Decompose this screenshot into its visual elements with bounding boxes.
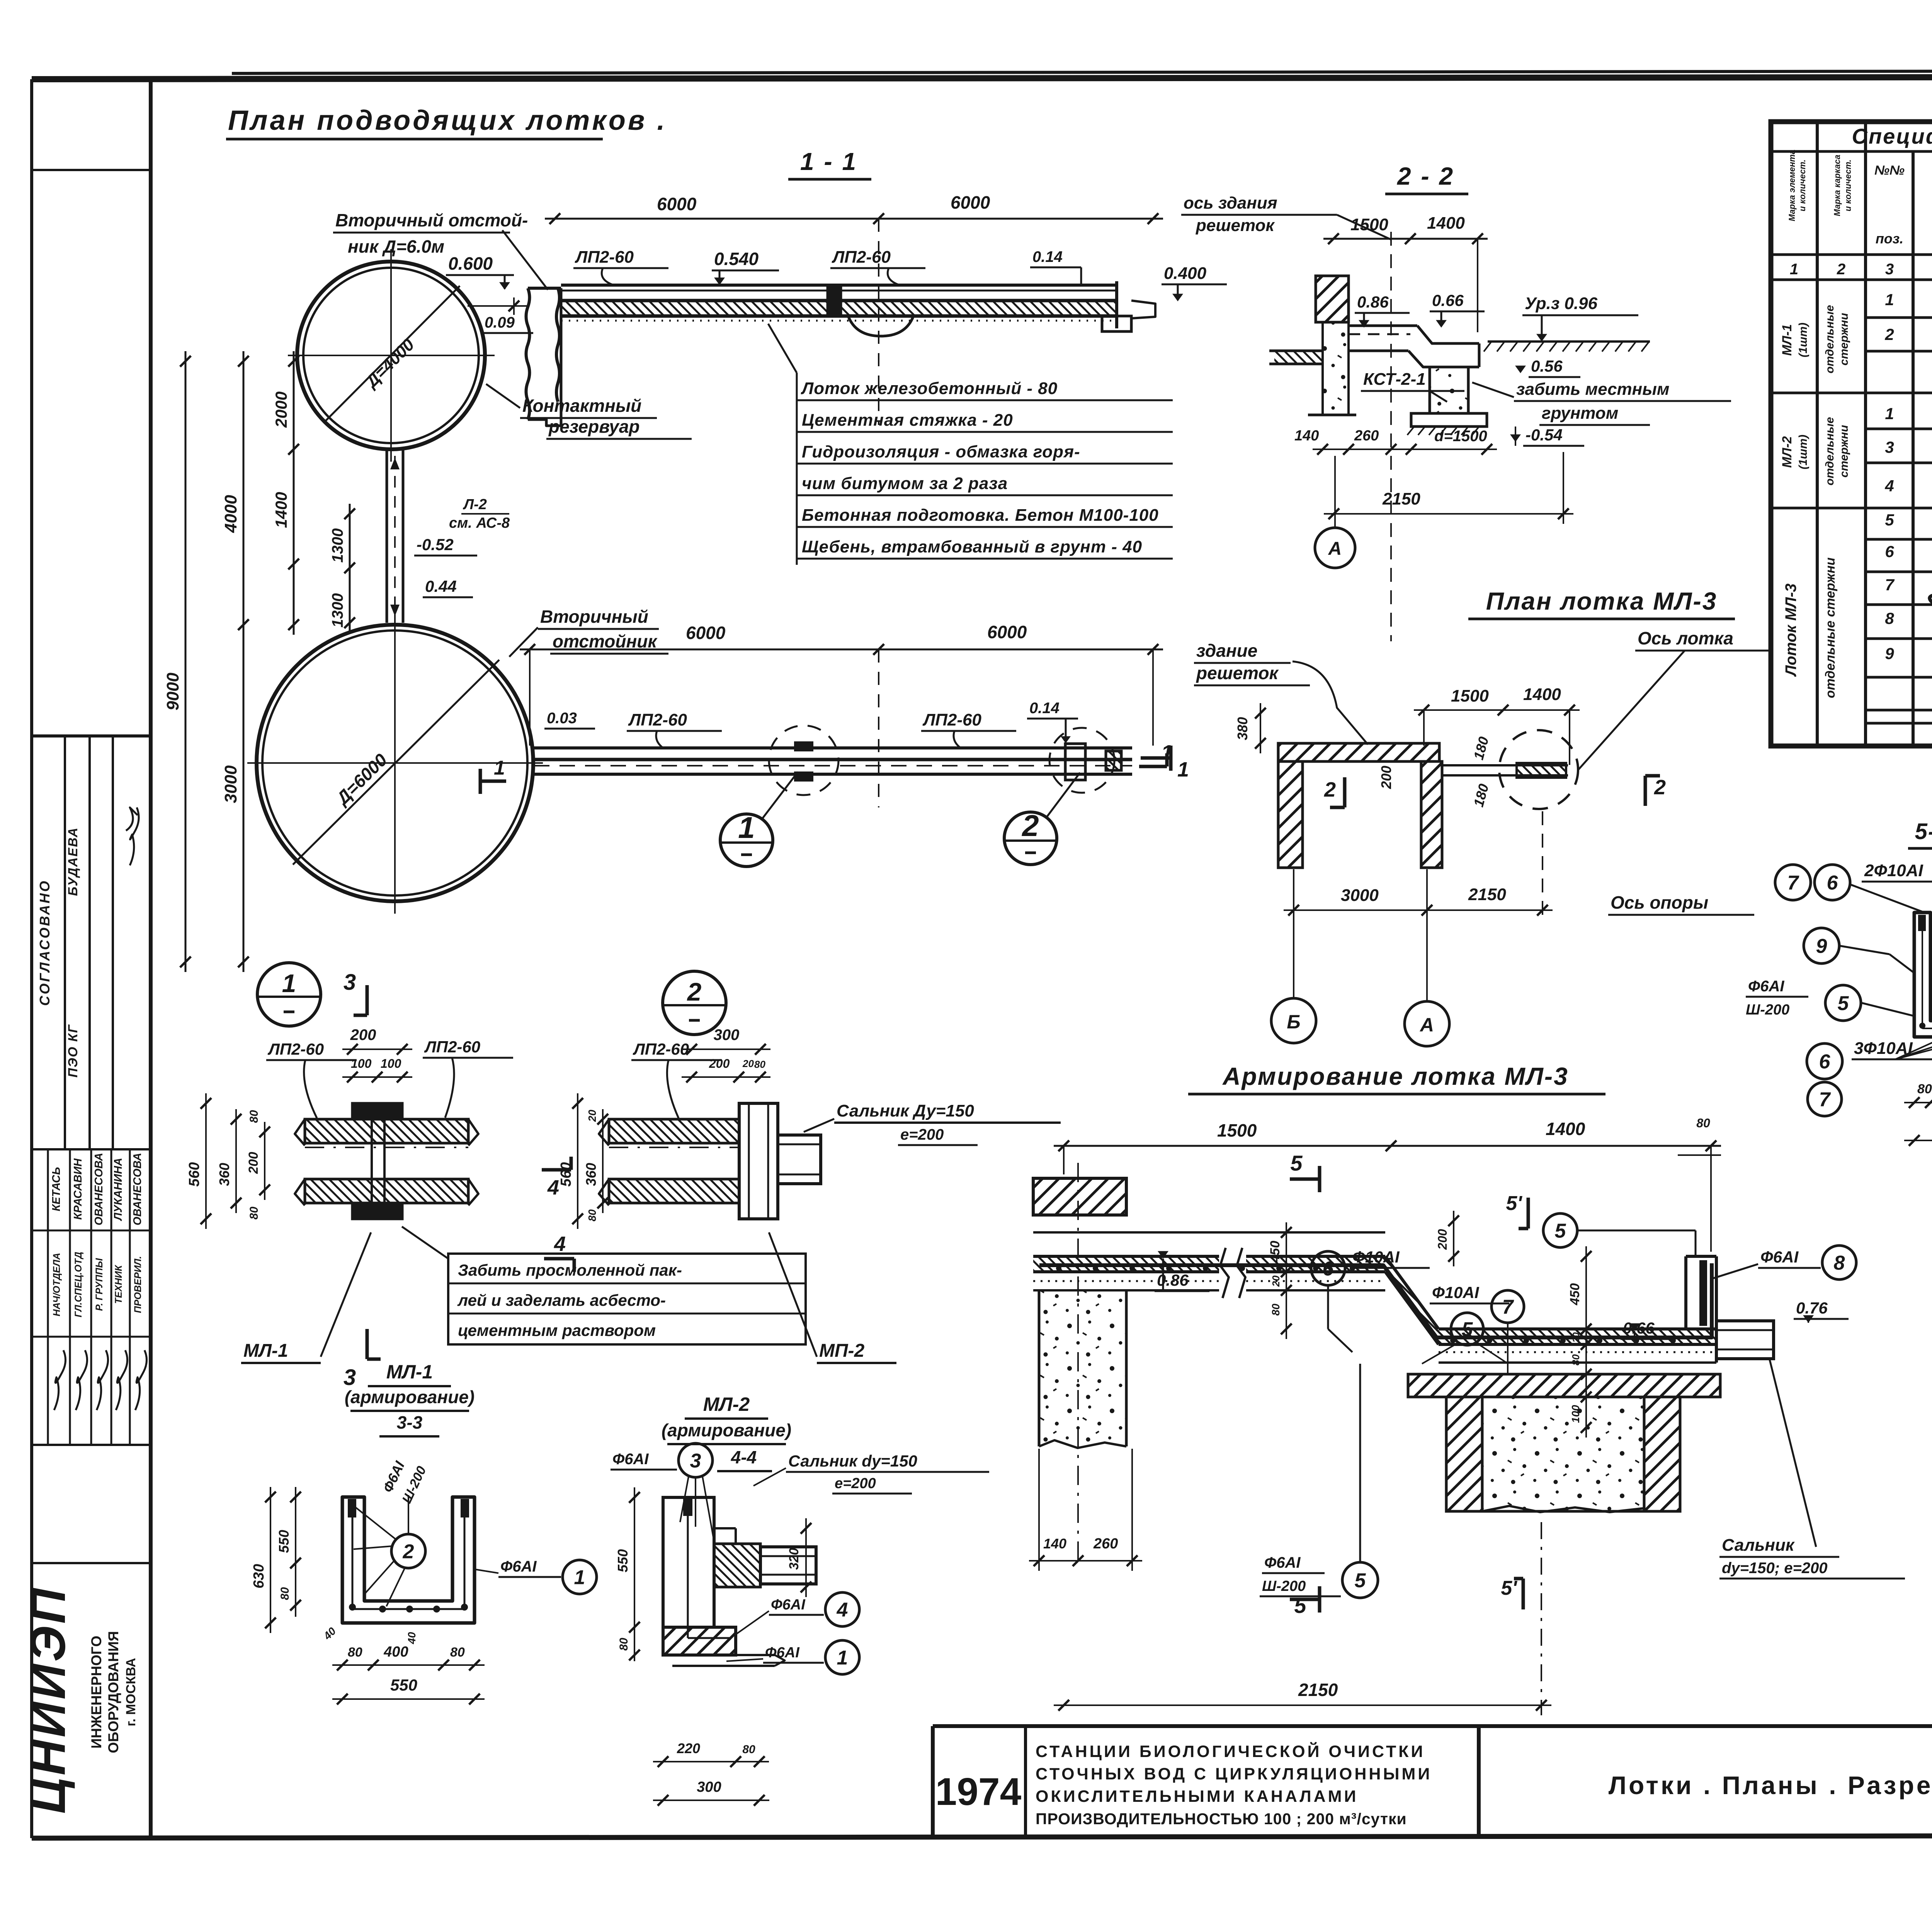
- svg-text:Ф6АI: Ф6АI: [1760, 1248, 1799, 1266]
- svg-text:грунтом: грунтом: [1542, 404, 1618, 423]
- svg-text:2Ф10АI: 2Ф10АI: [1864, 861, 1923, 880]
- svg-text:ЛП2-60: ЛП2-60: [832, 248, 891, 267]
- svg-text:Сальник dy=150: Сальник dy=150: [788, 1452, 917, 1470]
- sheet frame: [30, 79, 33, 1838]
- connecting channel between tanks: [386, 449, 388, 623]
- svg-text:резервуар: резервуар: [548, 416, 640, 437]
- svg-text:6: 6: [1819, 1051, 1831, 1073]
- svg-text:100: 100: [351, 1057, 372, 1071]
- svg-text:80: 80: [1270, 1303, 1282, 1316]
- svg-text:(армирование): (армирование): [345, 1387, 474, 1407]
- svg-text:МЛ-2: МЛ-2: [703, 1393, 750, 1415]
- svg-text:0.86: 0.86: [1157, 1271, 1189, 1289]
- circle 6 with label F10AI: [1311, 1251, 1345, 1285]
- svg-text:9: 9: [1816, 935, 1827, 958]
- detail2 end block: [739, 1103, 778, 1219]
- note box (caulk with tarred oakum): [448, 1254, 806, 1344]
- svg-text:0.44: 0.44: [425, 577, 457, 595]
- section flag 1 left: [479, 769, 482, 794]
- svg-text:1: 1: [738, 811, 755, 845]
- svg-text:7: 7: [1502, 1296, 1514, 1319]
- svg-text:630: 630: [251, 1564, 267, 1588]
- svg-text:260: 260: [1093, 1536, 1118, 1552]
- svg-text:Ф6АI: Ф6АI: [1264, 1554, 1301, 1571]
- svg-text:2: 2: [1884, 325, 1894, 343]
- ML-1 rebar lines: [352, 1503, 354, 1609]
- rotated dims left of slope: [1286, 1222, 1287, 1339]
- svg-text:2150: 2150: [1298, 1680, 1338, 1700]
- svg-text:и количест.: и количест.: [1798, 160, 1807, 211]
- svg-text:80: 80: [617, 1638, 630, 1651]
- wall hatched: [1316, 276, 1349, 322]
- svg-text:Гидроизоляция - обмазка горя-: Гидроизоляция - обмазка горя-: [802, 442, 1080, 461]
- circle 9: [1804, 928, 1839, 964]
- channel end detail circle 2: [1065, 744, 1085, 780]
- dimension 2000 / 1400: [293, 351, 295, 635]
- svg-text:-0.54: -0.54: [1526, 426, 1563, 444]
- dims 1500 1400 top: [1414, 709, 1580, 711]
- channel joint detail circle 1: [795, 743, 812, 750]
- svg-text:-0.52: -0.52: [417, 535, 454, 554]
- svg-text:80: 80: [754, 1059, 765, 1070]
- svg-text:НАЧ/ОТДЕЛА: НАЧ/ОТДЕЛА: [51, 1253, 62, 1317]
- svg-text:360: 360: [583, 1163, 599, 1186]
- svg-text:1500: 1500: [1451, 687, 1489, 705]
- svg-text:1400: 1400: [1523, 685, 1561, 704]
- lower slab band: [1385, 1256, 1716, 1344]
- svg-text:9000: 9000: [163, 673, 182, 710]
- svg-text:Б: Б: [1287, 1011, 1300, 1033]
- svg-text:4: 4: [554, 1232, 566, 1256]
- svg-text:План лотка МЛ-3: План лотка МЛ-3: [1486, 587, 1718, 615]
- section 2-2 axis line: [1390, 232, 1392, 641]
- right upturn wall: [1684, 1256, 1687, 1329]
- svg-text:здание: здание: [1196, 641, 1257, 661]
- svg-text:БУДАЕВА: БУДАЕВА: [66, 827, 80, 896]
- stamp agreement table: [32, 734, 151, 737]
- svg-text:Вторичный отстой-: Вторичный отстой-: [335, 210, 528, 230]
- svg-text:1400: 1400: [1546, 1119, 1585, 1139]
- section 1-1 right end detail: [1115, 281, 1118, 328]
- svg-text:ИНЖЕНЕРНОГО: ИНЖЕНЕРНОГО: [88, 1636, 104, 1749]
- svg-text:КСТ-2-1: КСТ-2-1: [1363, 370, 1426, 389]
- svg-text:ЛП2-60: ЛП2-60: [922, 710, 981, 729]
- svg-text:0.56: 0.56: [1531, 357, 1563, 375]
- svg-text:2: 2: [687, 977, 702, 1006]
- svg-text:2150: 2150: [1382, 489, 1420, 508]
- svg-text:МЛ-1: МЛ-1: [386, 1361, 433, 1383]
- svg-text:1500: 1500: [1217, 1120, 1257, 1140]
- svg-text:ТЕХНИК: ТЕХНИК: [113, 1264, 124, 1304]
- svg-text:6000: 6000: [657, 194, 697, 214]
- svg-text:4: 4: [547, 1176, 559, 1199]
- svg-text:5: 5: [1355, 1570, 1366, 1592]
- svg-text:лей и заделать асбесто-: лей и заделать асбесто-: [457, 1291, 666, 1309]
- ML-2 bottom leg hatched: [663, 1627, 736, 1655]
- specification table of reinforcement: [1771, 122, 1932, 746]
- svg-text:Цементная стяжка - 20: Цементная стяжка - 20: [802, 411, 1013, 430]
- svg-text:Ф6АI: Ф6АI: [612, 1451, 649, 1468]
- svg-text:отдельные: отдельные: [1823, 305, 1836, 373]
- svg-text:цементным раствором: цементным раствором: [458, 1321, 656, 1339]
- svg-text:80: 80: [279, 1587, 291, 1600]
- svg-text:(армирование): (армирование): [662, 1420, 791, 1440]
- svg-text:Ось лотка: Ось лотка: [1638, 628, 1733, 648]
- sloped transition: [1385, 1256, 1439, 1329]
- lower plan dim 6000+6000: [520, 649, 1163, 651]
- svg-text:е=200: е=200: [900, 1126, 944, 1143]
- svg-text:320: 320: [787, 1548, 801, 1570]
- svg-text:0.09: 0.09: [485, 314, 515, 331]
- svg-text:чим битумом за 2 раза: чим битумом за 2 раза: [802, 474, 1008, 493]
- svg-text:Щебень, втрамбованный в грунт: Щебень, втрамбованный в грунт - 40: [802, 537, 1142, 556]
- svg-text:200: 200: [1378, 766, 1394, 789]
- svg-text:ПЭО КГ: ПЭО КГ: [66, 1024, 80, 1078]
- svg-text:200: 200: [246, 1152, 261, 1174]
- svg-text:ОВАНЕСОВА: ОВАНЕСОВА: [131, 1153, 144, 1225]
- svg-text:200: 200: [350, 1026, 376, 1043]
- svg-text:550: 550: [615, 1549, 631, 1572]
- svg-text:3: 3: [344, 1365, 356, 1390]
- svg-text:поз.: поз.: [1876, 231, 1903, 246]
- dims 1500 1400: [1323, 238, 1488, 240]
- dims 3000 2150 bottom: [1284, 909, 1553, 911]
- svg-text:Ур.з 0.96: Ур.з 0.96: [1525, 294, 1598, 313]
- svg-text:5: 5: [1885, 511, 1894, 529]
- svg-text:1: 1: [1790, 261, 1798, 278]
- svg-text:2: 2: [1837, 261, 1845, 278]
- svg-text:1500: 1500: [1350, 215, 1388, 234]
- rebar in U-section: [1922, 919, 1923, 1028]
- contact reservoir wall (wavy): [526, 288, 530, 420]
- svg-text:100: 100: [381, 1057, 401, 1071]
- support pedestal: [1430, 367, 1468, 413]
- column mark A: [1315, 528, 1355, 568]
- svg-text:0.400: 0.400: [1164, 264, 1207, 283]
- svg-text:1300: 1300: [329, 593, 346, 628]
- svg-text:ОВАНЕСОВА: ОВАНЕСОВА: [93, 1153, 105, 1225]
- stamp strip top cell line: [32, 169, 151, 171]
- svg-text:0.14: 0.14: [1029, 700, 1060, 717]
- rotated dims right: [1585, 1246, 1587, 1438]
- detail marker circle 2: [663, 971, 726, 1035]
- svg-text:380: 380: [1235, 717, 1250, 740]
- svg-text:План подводящих лотков .: План подводящих лотков .: [228, 105, 667, 136]
- svg-text:1974: 1974: [935, 1770, 1022, 1813]
- svg-text:8: 8: [1885, 609, 1894, 627]
- svg-text:8: 8: [1834, 1252, 1845, 1274]
- svg-text:3000: 3000: [1341, 886, 1379, 905]
- project description: [1036, 1742, 1432, 1828]
- svg-text:2150: 2150: [1468, 885, 1506, 904]
- svg-text:6: 6: [1827, 872, 1838, 894]
- svg-text:80: 80: [1917, 1082, 1932, 1096]
- svg-text:80: 80: [742, 1743, 755, 1756]
- ground hatch: [1488, 340, 1650, 343]
- svg-text:400: 400: [383, 1644, 408, 1660]
- svg-text:Лотки . Планы . Разрезы . Узл: Лотки . Планы . Разрезы . Узлы .: [1609, 1771, 1932, 1800]
- top dims 1500 1400: [1054, 1145, 1721, 1147]
- svg-text:5': 5': [1501, 1577, 1517, 1599]
- svg-text:Ось опоры: Ось опоры: [1611, 892, 1708, 913]
- ML-2 channel step: [714, 1544, 760, 1587]
- svg-text:1400: 1400: [1427, 214, 1465, 233]
- svg-text:1400: 1400: [272, 492, 290, 528]
- svg-text:3-3: 3-3: [397, 1412, 423, 1433]
- svg-text:г. МОСКВА: г. МОСКВА: [124, 1658, 138, 1726]
- svg-text:20: 20: [1571, 1332, 1582, 1343]
- svg-text:ЦНИИЭП: ЦНИИЭП: [20, 1586, 76, 1814]
- section flag 1 right: [1141, 756, 1171, 760]
- svg-text:220: 220: [677, 1740, 700, 1756]
- heavy rebar line in slabs: [1039, 1263, 1712, 1337]
- svg-text:А: А: [1328, 539, 1342, 559]
- svg-text:1300: 1300: [329, 528, 346, 563]
- svg-text:Спецификация арматуры на: Спецификация арматуры на 1 элемент: [1852, 124, 1932, 148]
- svg-text:ГЛ.СПЕЦ.ОТД: ГЛ.СПЕЦ.ОТД: [73, 1252, 84, 1317]
- section 1-1 dimension 6000+6000: [545, 218, 1163, 220]
- svg-text:отстойник: отстойник: [553, 631, 658, 651]
- circles 7 6 top: [1775, 865, 1811, 900]
- svg-text:Армирование лотка МЛ-3: Армирование лотка МЛ-3: [1222, 1062, 1568, 1090]
- svg-text:стержни: стержни: [1838, 425, 1850, 478]
- secondary settler tank D=4000 (plan circle): [297, 262, 485, 449]
- detail2 slabs: [609, 1119, 739, 1143]
- support piers: [1446, 1397, 1482, 1511]
- svg-text:1 - 1: 1 - 1: [800, 148, 857, 175]
- incoming slab from section 1-1: [1274, 351, 1323, 364]
- svg-text:260: 260: [1354, 428, 1379, 444]
- left foundation concrete: [1039, 1290, 1126, 1446]
- secondary settler tank D=6000 (plan circle): [257, 625, 533, 901]
- circle 5 top right with leader: [1543, 1213, 1577, 1247]
- svg-text:40: 40: [406, 1632, 418, 1645]
- svg-text:2 - 2: 2 - 2: [1397, 162, 1454, 190]
- stamp names table: [47, 1149, 49, 1445]
- svg-text:ЛП2-60: ЛП2-60: [575, 248, 634, 267]
- detail1 joint caps: [352, 1103, 402, 1119]
- ML-1 position circle 2 with leaders: [391, 1534, 425, 1568]
- channel profile: [1349, 325, 1417, 327]
- left dimension chain 9000: [185, 351, 187, 972]
- svg-text:20: 20: [586, 1110, 598, 1122]
- svg-text:0.600: 0.600: [448, 253, 493, 274]
- svg-text:1: 1: [837, 1647, 848, 1669]
- svg-text:е=200: е=200: [835, 1475, 876, 1492]
- ML-2 inner rebar: [687, 1503, 689, 1638]
- svg-text:(1шт): (1шт): [1797, 435, 1810, 469]
- svg-text:ЛП2-60: ЛП2-60: [424, 1038, 480, 1056]
- svg-text:80: 80: [1570, 1354, 1582, 1365]
- svg-text:ОБОРУДОВАНИЯ: ОБОРУДОВАНИЯ: [105, 1631, 121, 1753]
- detail2 left dims: [577, 1093, 578, 1229]
- svg-text:d=1500: d=1500: [1434, 428, 1487, 445]
- svg-text:5': 5': [1506, 1192, 1522, 1215]
- wall axis dashdot: [1077, 1163, 1079, 1568]
- svg-text:140: 140: [1043, 1536, 1066, 1551]
- svg-text:1: 1: [282, 969, 296, 997]
- dashed circle (opening): [1499, 730, 1578, 809]
- svg-text:5: 5: [1838, 992, 1849, 1015]
- svg-text:ЛП2-60: ЛП2-60: [633, 1040, 689, 1058]
- svg-text:200: 200: [709, 1057, 730, 1071]
- svg-text:ЛП2-60: ЛП2-60: [628, 710, 687, 729]
- svg-text:9: 9: [1885, 644, 1894, 663]
- svg-text:4000: 4000: [221, 495, 240, 533]
- svg-text:4-4: 4-4: [731, 1447, 757, 1467]
- slab break marks: [1219, 1248, 1246, 1298]
- svg-text:ЛП2-60: ЛП2-60: [267, 1040, 324, 1058]
- ML-3 channel in plan: [1442, 764, 1568, 766]
- svg-text:100: 100: [1570, 1405, 1582, 1423]
- svg-text:отдельные: отдельные: [1823, 417, 1836, 485]
- svg-text:0.14: 0.14: [1032, 248, 1063, 265]
- ML-1 dims: [270, 1487, 271, 1633]
- svg-text:забить местным: забить местным: [1516, 380, 1669, 399]
- svg-text:Забить просмоленной пак-: Забить просмоленной пак-: [458, 1261, 682, 1279]
- svg-text:0.66: 0.66: [1623, 1319, 1655, 1337]
- svg-text:№№: №№: [1874, 163, 1905, 178]
- svg-text:ПРОВЕРИЛ.: ПРОВЕРИЛ.: [133, 1256, 143, 1313]
- svg-text:450: 450: [1268, 1241, 1282, 1263]
- svg-text:140: 140: [1294, 428, 1319, 444]
- svg-text:0.76: 0.76: [1796, 1299, 1828, 1317]
- svg-text:3: 3: [1885, 261, 1894, 278]
- svg-text:1: 1: [1885, 404, 1894, 423]
- left wall slab lines: [1033, 1214, 1126, 1216]
- svg-text:80: 80: [348, 1645, 362, 1660]
- svg-text:МЛ-1: МЛ-1: [1780, 324, 1794, 356]
- svg-text:Лоток железобетонный - 80: Лоток железобетонный - 80: [801, 379, 1058, 398]
- svg-text:Ф6АI: Ф6АI: [1748, 978, 1784, 995]
- svg-text:1: 1: [574, 1567, 585, 1589]
- svg-text:20: 20: [1270, 1275, 1282, 1287]
- ML-2 dims: [634, 1487, 635, 1637]
- svg-text:Ф6АI: Ф6АI: [500, 1558, 537, 1575]
- detail marker circle 1: [257, 963, 321, 1026]
- svg-text:Марка каркаса: Марка каркаса: [1832, 155, 1842, 216]
- svg-text:300: 300: [697, 1779, 721, 1795]
- svg-text:ПРОИЗВОДИТЕЛЬНОСТЬЮ 100 ; 200: ПРОИЗВОДИТЕЛЬНОСТЬЮ 100 ; 200 м³/сутки: [1036, 1810, 1407, 1828]
- svg-text:2: 2: [1324, 778, 1336, 801]
- svg-text:5: 5: [1555, 1220, 1566, 1242]
- svg-text:360: 360: [216, 1163, 232, 1186]
- svg-text:1: 1: [1177, 758, 1189, 781]
- svg-text:300: 300: [714, 1026, 740, 1043]
- svg-text:и количест.: и количест.: [1843, 160, 1853, 211]
- dimension 4000 / 3000: [243, 351, 245, 972]
- dimension 1300 1300: [349, 504, 351, 633]
- svg-text:0.86: 0.86: [1357, 293, 1389, 311]
- detail callout circle 2: [1004, 812, 1057, 865]
- svg-text:ник Д=6.0м: ник Д=6.0м: [348, 236, 444, 257]
- svg-text:80: 80: [248, 1110, 260, 1123]
- svg-text:2: 2: [1654, 776, 1666, 799]
- svg-text:Р. ГРУППЫ: Р. ГРУППЫ: [94, 1258, 105, 1311]
- ML-2 L-shaped wall section: [663, 1497, 714, 1627]
- svg-text:Контактный: Контактный: [522, 396, 641, 416]
- svg-text:1: 1: [1885, 291, 1894, 309]
- foundation block between piers: [1482, 1397, 1644, 1511]
- svg-text:МЛ-2: МЛ-2: [1780, 436, 1794, 468]
- svg-text:80: 80: [450, 1645, 465, 1660]
- svg-text:СТАНЦИИ БИОЛОГИЧЕСКОЙ ОЧИСТКИ: СТАНЦИИ БИОЛОГИЧЕСКОЙ ОЧИСТКИ: [1036, 1742, 1425, 1761]
- svg-text:200: 200: [1435, 1229, 1449, 1250]
- svg-text:550: 550: [276, 1530, 292, 1553]
- svg-text:4: 4: [1884, 477, 1894, 495]
- section 1-1 channel slab: [561, 284, 1117, 287]
- svg-text:Ш-200: Ш-200: [1746, 1002, 1789, 1018]
- svg-text:Марка элемента: Марка элемента: [1787, 150, 1797, 221]
- title block: [933, 1724, 1932, 1728]
- ML-3 walls hatched: [1278, 743, 1439, 761]
- svg-text:6: 6: [1323, 1258, 1334, 1280]
- detail callout circle 1: [720, 814, 773, 867]
- svg-text:6000: 6000: [686, 623, 726, 643]
- svg-text:20: 20: [742, 1058, 754, 1069]
- svg-text:450: 450: [1568, 1283, 1582, 1306]
- svg-text:ось здания: ось здания: [1184, 194, 1277, 212]
- svg-text:3000: 3000: [221, 765, 240, 803]
- svg-text:КРАСАВИН: КРАСАВИН: [72, 1158, 84, 1220]
- axis circles B and A: [1271, 998, 1316, 1043]
- svg-text:7: 7: [1819, 1089, 1831, 1111]
- detail1 slabs: [305, 1119, 468, 1143]
- svg-text:Ф6АI: Ф6АI: [771, 1597, 806, 1613]
- svg-text:Вторичный: Вторичный: [540, 607, 648, 627]
- svg-text:7: 7: [1885, 576, 1895, 594]
- svg-text:3: 3: [1885, 438, 1894, 456]
- slab joint block: [828, 285, 841, 316]
- stamp org name CNIIEP: [32, 1562, 151, 1564]
- svg-text:(1шт): (1шт): [1797, 323, 1810, 357]
- svg-text:5: 5: [1290, 1151, 1303, 1175]
- underlay hatched band: [1408, 1374, 1720, 1397]
- svg-text:6000: 6000: [951, 192, 990, 212]
- svg-text:0.66: 0.66: [1432, 291, 1464, 309]
- svg-text:6: 6: [1885, 542, 1894, 561]
- svg-text:Ф10АI: Ф10АI: [1432, 1283, 1480, 1302]
- svg-text:2000: 2000: [272, 391, 290, 428]
- svg-text:7: 7: [1787, 872, 1799, 894]
- svg-text:Л-2: Л-2: [463, 496, 487, 513]
- svg-text:Ф6АI: Ф6АI: [765, 1645, 800, 1661]
- svg-text:Ш-200: Ш-200: [1262, 1578, 1306, 1594]
- svg-text:3: 3: [690, 1450, 701, 1472]
- svg-text:решеток: решеток: [1196, 663, 1279, 683]
- svg-text:Ф10АI: Ф10АI: [1352, 1248, 1400, 1266]
- svg-text:СТОЧНЫХ ВОД С ЦИРКУЛЯЦИОННЫМИ: СТОЧНЫХ ВОД С ЦИРКУЛЯЦИОННЫМИ: [1036, 1765, 1432, 1783]
- dim 2150 bottom: [1054, 1704, 1551, 1706]
- left wall hatched: [1033, 1178, 1126, 1215]
- svg-text:dy=150; е=200: dy=150; е=200: [1722, 1560, 1828, 1577]
- svg-text:6000: 6000: [987, 622, 1027, 642]
- detail1 left dims: [205, 1093, 207, 1229]
- svg-text:1: 1: [494, 757, 505, 779]
- U-section 5-5: [1914, 913, 1932, 1037]
- svg-text:Сальник Ду=150: Сальник Ду=150: [837, 1101, 974, 1120]
- svg-text:0.03: 0.03: [547, 710, 577, 727]
- svg-text:2: 2: [403, 1541, 414, 1563]
- detail2 gland pipe: [778, 1135, 821, 1184]
- column numbers row: [1771, 253, 1932, 256]
- svg-text:А: А: [1419, 1014, 1434, 1036]
- svg-text:МП-2: МП-2: [819, 1341, 864, 1361]
- svg-text:560: 560: [186, 1162, 202, 1186]
- lower plan channel beam: [534, 746, 1132, 749]
- svg-text:3: 3: [344, 970, 356, 995]
- svg-text:Лоток МЛ-3: Лоток МЛ-3: [1782, 583, 1799, 677]
